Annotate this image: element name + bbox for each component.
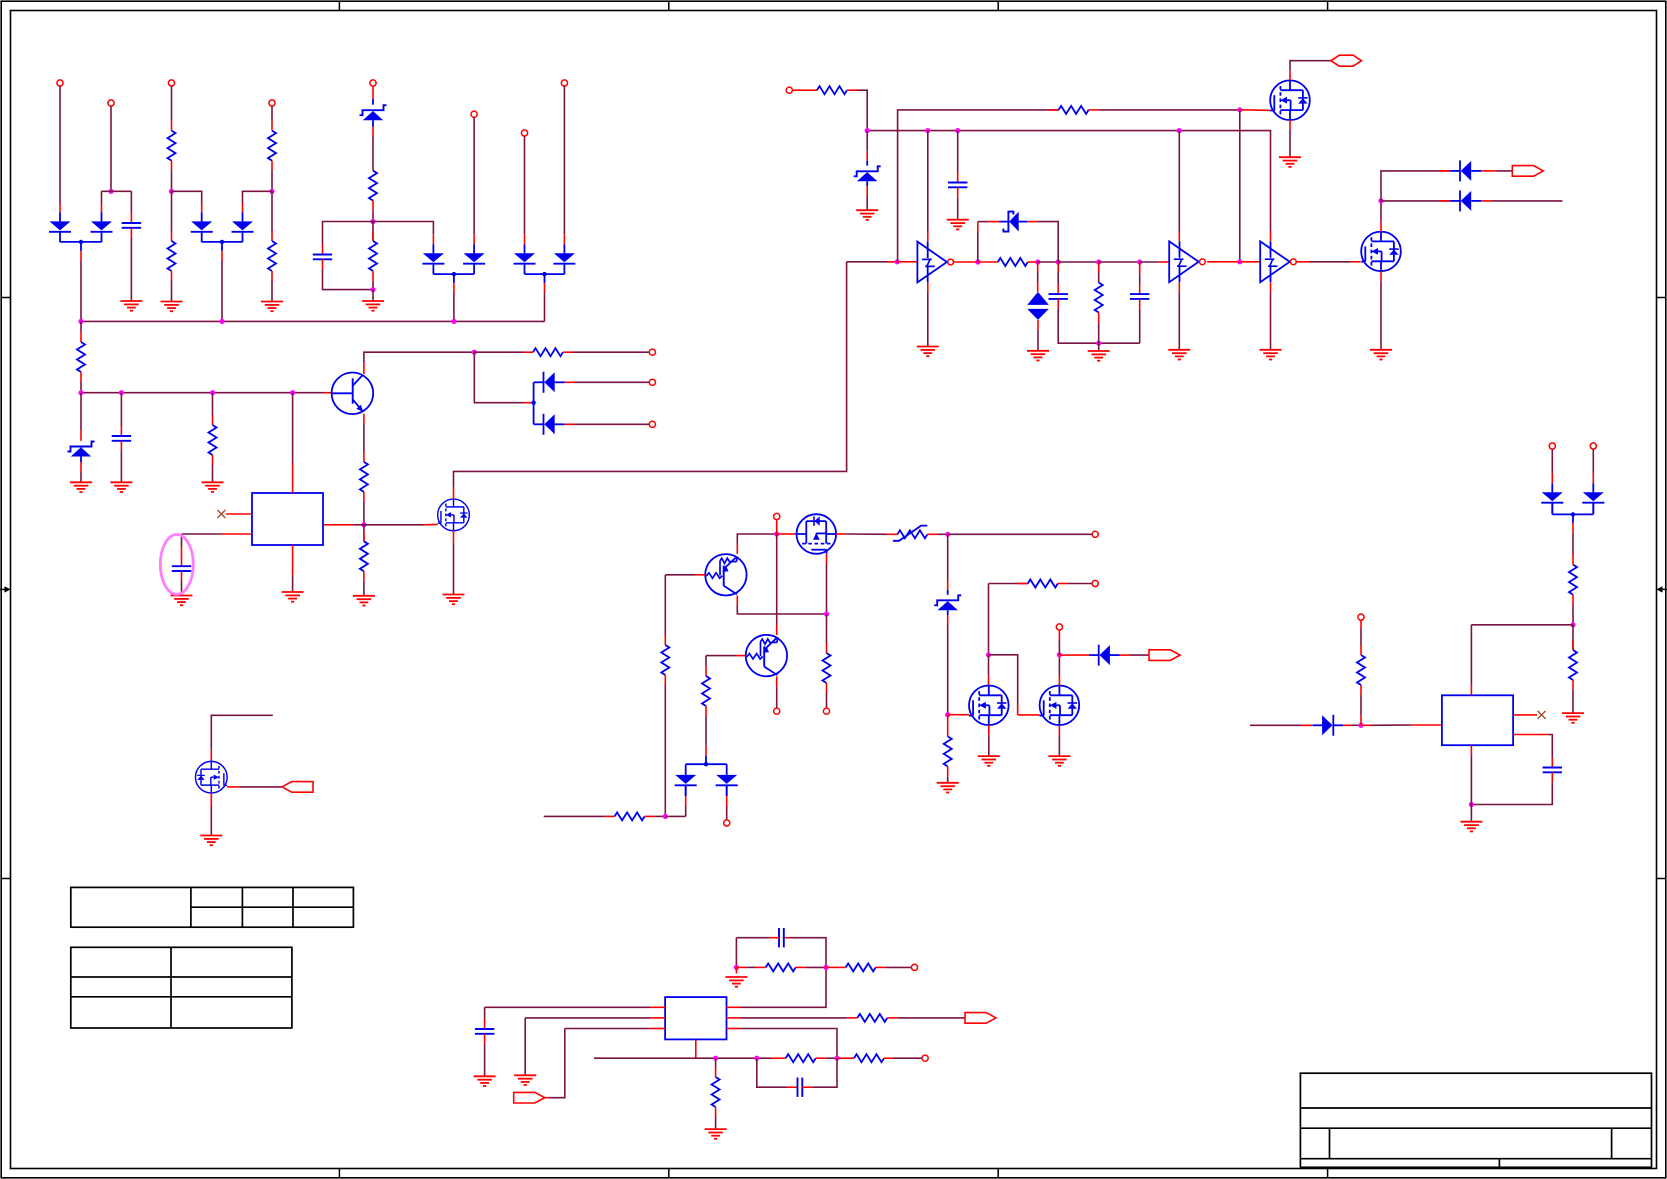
wire [1058, 630, 1060, 655]
ground [937, 783, 959, 793]
ground [1279, 157, 1301, 167]
mosfet M4 [1361, 232, 1401, 272]
zener Z3 [854, 166, 881, 181]
wire [898, 110, 1059, 262]
wire [171, 86, 173, 131]
wire [1038, 261, 1059, 263]
mosfet M7 [1040, 686, 1080, 726]
resistor R20 [944, 736, 952, 766]
wire [227, 786, 282, 788]
wire [736, 966, 765, 968]
terminal P6 [471, 111, 477, 117]
resistor R9 [533, 348, 563, 356]
wire [737, 534, 776, 554]
node B6 [1237, 107, 1242, 112]
wire [777, 533, 797, 535]
wire [80, 251, 82, 322]
diode D17 [1312, 715, 1343, 736]
wire [1139, 262, 1141, 294]
wire [363, 525, 365, 542]
wire [1089, 109, 1240, 111]
wire [484, 1034, 486, 1077]
wire [1058, 655, 1060, 686]
terminal P2 [108, 100, 114, 106]
resistor R28 [1357, 655, 1365, 685]
wire VREF-bus [81, 392, 332, 394]
wire [1471, 624, 1573, 626]
wire [372, 271, 374, 290]
wire [802, 1058, 837, 1087]
revision table 2 [71, 947, 292, 1028]
node B8 [1035, 259, 1040, 264]
ground [725, 977, 747, 987]
resistor R30 [1569, 650, 1577, 680]
mosfet M1 [195, 761, 227, 793]
wire [171, 271, 173, 302]
node D4n [754, 1056, 759, 1061]
resistor R5 [369, 171, 377, 201]
diode D2 [91, 212, 113, 242]
wire [665, 575, 705, 645]
capacitor C3 [112, 436, 131, 441]
mosfet M6 [969, 686, 1009, 726]
ground [856, 210, 878, 220]
node B1 [865, 128, 870, 133]
resistor R24 [857, 1014, 887, 1022]
wire [372, 201, 374, 222]
ground [353, 596, 375, 606]
wire [1027, 222, 1058, 252]
wire [544, 283, 546, 321]
wire [1513, 735, 1552, 768]
wire [727, 938, 827, 1008]
wire [866, 131, 868, 166]
wire [363, 414, 365, 462]
wire [796, 966, 826, 968]
wire [1037, 320, 1039, 351]
resistor R6 [369, 241, 377, 271]
diode D4 [232, 212, 254, 242]
node C3 [824, 611, 829, 616]
wire [1290, 61, 1331, 81]
resistor R17 [823, 653, 831, 683]
wire [989, 583, 1028, 585]
wire [80, 372, 82, 393]
ground [1370, 350, 1392, 360]
IC U1 [252, 493, 323, 545]
ground [1027, 351, 1049, 361]
capacitor C8 [779, 928, 784, 947]
resistor R15 [1095, 283, 1103, 313]
wire [221, 251, 223, 322]
diode D15 [716, 766, 738, 796]
node C5 [945, 712, 950, 717]
diode D9 [534, 372, 565, 393]
wire GND-bus [81, 320, 545, 322]
wire [776, 534, 778, 635]
node B2 [925, 128, 930, 133]
wire [1098, 313, 1100, 352]
node A5 [370, 287, 375, 292]
terminal P22 [1358, 614, 1364, 620]
flag TP1 [282, 782, 313, 793]
wire [372, 120, 374, 170]
node C6 [986, 652, 991, 657]
wire [372, 290, 374, 301]
wire [474, 351, 533, 353]
flag OUT2 [1149, 650, 1180, 661]
diode D13 [1450, 190, 1481, 211]
node A8 [451, 319, 456, 324]
wire [182, 534, 253, 566]
wire FB-bus [594, 1057, 771, 1059]
wire [1207, 261, 1240, 263]
wire [866, 181, 868, 210]
resistor R4 [268, 241, 276, 271]
wire [453, 283, 455, 321]
wire [1289, 120, 1291, 157]
wire [947, 766, 949, 782]
ground [161, 302, 183, 312]
tvs DZ1 [1027, 292, 1049, 320]
node B3 [955, 128, 960, 133]
capacitor C5 [948, 183, 967, 188]
wire [686, 762, 727, 766]
wire [978, 261, 998, 263]
wire [1360, 685, 1362, 725]
wire [130, 228, 132, 301]
wire [1572, 625, 1574, 650]
node D1n [734, 965, 739, 970]
capacitor C9 [1543, 768, 1562, 773]
ground [1048, 756, 1070, 766]
transistor Q2 [705, 554, 746, 595]
ground [362, 301, 384, 311]
ground [978, 756, 1000, 766]
node C7 [1057, 652, 1062, 657]
wire [323, 524, 364, 526]
ground [1562, 713, 1584, 723]
node A6 [78, 319, 83, 324]
zener Z2 [68, 442, 95, 457]
wire [776, 676, 778, 708]
terminal P15 [823, 708, 829, 714]
terminal P21 [922, 1055, 928, 1061]
wire [1572, 514, 1574, 564]
wire [1470, 745, 1472, 822]
wire [988, 725, 990, 756]
resistor R23 [846, 963, 876, 971]
wire [1381, 171, 1450, 201]
node B7 [975, 259, 980, 264]
ground [443, 595, 465, 605]
node B11 [1096, 259, 1101, 264]
zener Z1 [360, 105, 387, 120]
diode D1 [49, 212, 71, 242]
wire [211, 715, 272, 761]
wire [826, 614, 828, 653]
wire [171, 161, 173, 192]
wire [130, 191, 132, 223]
wire [1178, 131, 1180, 242]
wire [954, 261, 978, 263]
mosfet M3 [1270, 80, 1310, 120]
wire [757, 1058, 798, 1087]
wire [181, 571, 183, 596]
wire [563, 351, 649, 353]
node B4 [1177, 128, 1182, 133]
wire [531, 382, 535, 424]
wire [110, 106, 112, 191]
wire [80, 393, 82, 441]
wire [1240, 261, 1260, 263]
resistor R10 [360, 462, 368, 492]
resistor R8 [209, 425, 217, 455]
wire [524, 136, 526, 244]
node A11 [210, 390, 215, 395]
wire [1058, 583, 1092, 585]
node C4 [663, 814, 668, 819]
terminal P19 [1056, 624, 1062, 630]
title block [1300, 1073, 1651, 1167]
resistor R14 [998, 258, 1028, 266]
wire [1098, 262, 1100, 283]
resistor R26 [854, 1054, 884, 1062]
wire [372, 222, 374, 242]
wire [847, 90, 867, 130]
node B10 [1096, 341, 1101, 346]
wire [1178, 282, 1180, 350]
wire [876, 966, 912, 968]
ground [705, 1129, 727, 1139]
ground [202, 482, 224, 492]
wire [1240, 109, 1271, 112]
diode D19 [1582, 483, 1604, 513]
node A13 [472, 350, 477, 355]
wire [485, 1007, 665, 1029]
resistor R21 [1028, 580, 1058, 588]
terminal P8 [561, 80, 567, 86]
terminal P16 [774, 708, 780, 714]
wire [1361, 724, 1442, 726]
wire [1239, 110, 1241, 262]
capacitor C10 [798, 1078, 803, 1097]
wire [364, 523, 438, 525]
wire [947, 610, 949, 714]
wire [101, 191, 103, 212]
flag COMP [965, 1013, 996, 1024]
diode D18 [1541, 483, 1563, 513]
wire [685, 785, 687, 816]
wire [988, 655, 990, 686]
resistor R12 [817, 86, 847, 94]
wire [1297, 261, 1361, 263]
diode D5 [422, 244, 444, 274]
wire [847, 261, 898, 263]
wire [1037, 262, 1039, 292]
wire [715, 1107, 717, 1129]
node B5 [895, 259, 900, 264]
wire [544, 815, 615, 817]
node B13 [1237, 259, 1242, 264]
wire [226, 513, 252, 515]
ground [282, 592, 304, 602]
wire [927, 282, 929, 346]
node E1 [1358, 723, 1363, 728]
wire [1481, 170, 1513, 172]
node A14 [361, 522, 366, 527]
wire [80, 457, 82, 483]
wire [645, 815, 666, 817]
revision table 1 [71, 887, 354, 927]
resistor R7 [77, 342, 85, 372]
node B12 [1137, 259, 1142, 264]
wire [323, 259, 374, 289]
flag FB [514, 1092, 545, 1103]
wire [120, 393, 122, 436]
terminal P14 [1092, 531, 1098, 537]
zener Z5 [934, 595, 961, 610]
wire [726, 785, 728, 820]
wire [80, 321, 82, 342]
wire [927, 131, 929, 242]
wire [373, 222, 433, 245]
wire [884, 1057, 922, 1059]
resistor R1 [168, 131, 176, 161]
node E2 [1570, 622, 1575, 627]
wire [664, 675, 666, 816]
capacitor C1 [122, 223, 141, 228]
wire [1140, 261, 1170, 263]
wire [271, 191, 273, 241]
node A7 [219, 319, 224, 324]
resistor R13 [1059, 106, 1089, 114]
node A10 [119, 390, 124, 395]
wire [948, 533, 1092, 535]
wire [1270, 282, 1272, 350]
wire [988, 584, 990, 655]
wire [727, 1017, 858, 1019]
wire [525, 272, 565, 283]
transistor Q3 [746, 635, 787, 676]
node A3 [269, 189, 274, 194]
wire [947, 534, 949, 595]
resistor R27 [712, 1077, 720, 1107]
ground [70, 482, 92, 492]
resistor R16 [661, 645, 669, 675]
terminal P1 [57, 80, 63, 86]
wire [1099, 261, 1140, 263]
resistor R25 [786, 1054, 816, 1062]
buffer U4 [1260, 241, 1296, 282]
fuse F1 [893, 526, 928, 541]
terminal P4 [269, 100, 275, 106]
wire [1572, 680, 1574, 713]
wire [1380, 271, 1382, 350]
mosfet M2 [438, 499, 470, 531]
diode D3 [191, 212, 213, 242]
wire [102, 190, 132, 192]
ground [200, 836, 222, 846]
flag OUT1 [1512, 166, 1543, 177]
ground [261, 302, 283, 312]
wire [686, 764, 727, 766]
wire [1059, 654, 1089, 656]
ground [947, 220, 969, 230]
wire [957, 131, 959, 183]
wire [978, 222, 999, 262]
node E3 [1469, 802, 1474, 807]
no-connect [217, 510, 225, 518]
wire [172, 191, 202, 212]
diode D8 [553, 244, 575, 274]
wire [665, 815, 685, 817]
wire [433, 272, 474, 283]
terminal P18 [1092, 580, 1098, 586]
wire [565, 423, 650, 425]
ground [120, 301, 142, 311]
terminal P24 [1590, 443, 1596, 449]
wire [364, 352, 474, 374]
node A12 [290, 390, 295, 395]
wire [171, 191, 173, 241]
wire [563, 86, 565, 244]
wire [525, 1018, 665, 1075]
wire [1057, 252, 1059, 294]
ground [1460, 822, 1482, 832]
node D3n [713, 1056, 718, 1061]
ground [514, 1075, 536, 1085]
wire [565, 381, 650, 383]
wire [771, 1057, 786, 1059]
wire [887, 533, 947, 535]
terminal P17 [724, 820, 730, 826]
wire [836, 533, 887, 535]
wire [776, 520, 778, 534]
wire [1552, 503, 1593, 517]
ground [171, 596, 193, 606]
node A9 [78, 390, 83, 395]
resistor R19 [615, 812, 645, 820]
wire [212, 455, 214, 482]
terminal P7 [521, 130, 527, 136]
wire [706, 656, 746, 676]
wire [1120, 654, 1149, 656]
wire [271, 271, 273, 302]
wire [1592, 449, 1594, 483]
wire [473, 117, 475, 244]
wire [271, 161, 273, 192]
node A2 [169, 189, 174, 194]
wire [1360, 620, 1362, 655]
node A1 [108, 189, 113, 194]
wire [363, 571, 365, 596]
node B14 [1378, 198, 1383, 203]
wire [1381, 200, 1450, 202]
resistor R22 [766, 963, 796, 971]
wire [1481, 200, 1563, 202]
wire [1470, 625, 1472, 696]
wire [212, 393, 214, 425]
wire [59, 86, 61, 212]
wire [735, 967, 737, 973]
zener Z4 [999, 212, 1027, 232]
diode D7 [514, 244, 536, 274]
node C1 [774, 531, 779, 536]
wire [1572, 595, 1574, 625]
ground [474, 1076, 496, 1086]
wire [243, 191, 273, 212]
